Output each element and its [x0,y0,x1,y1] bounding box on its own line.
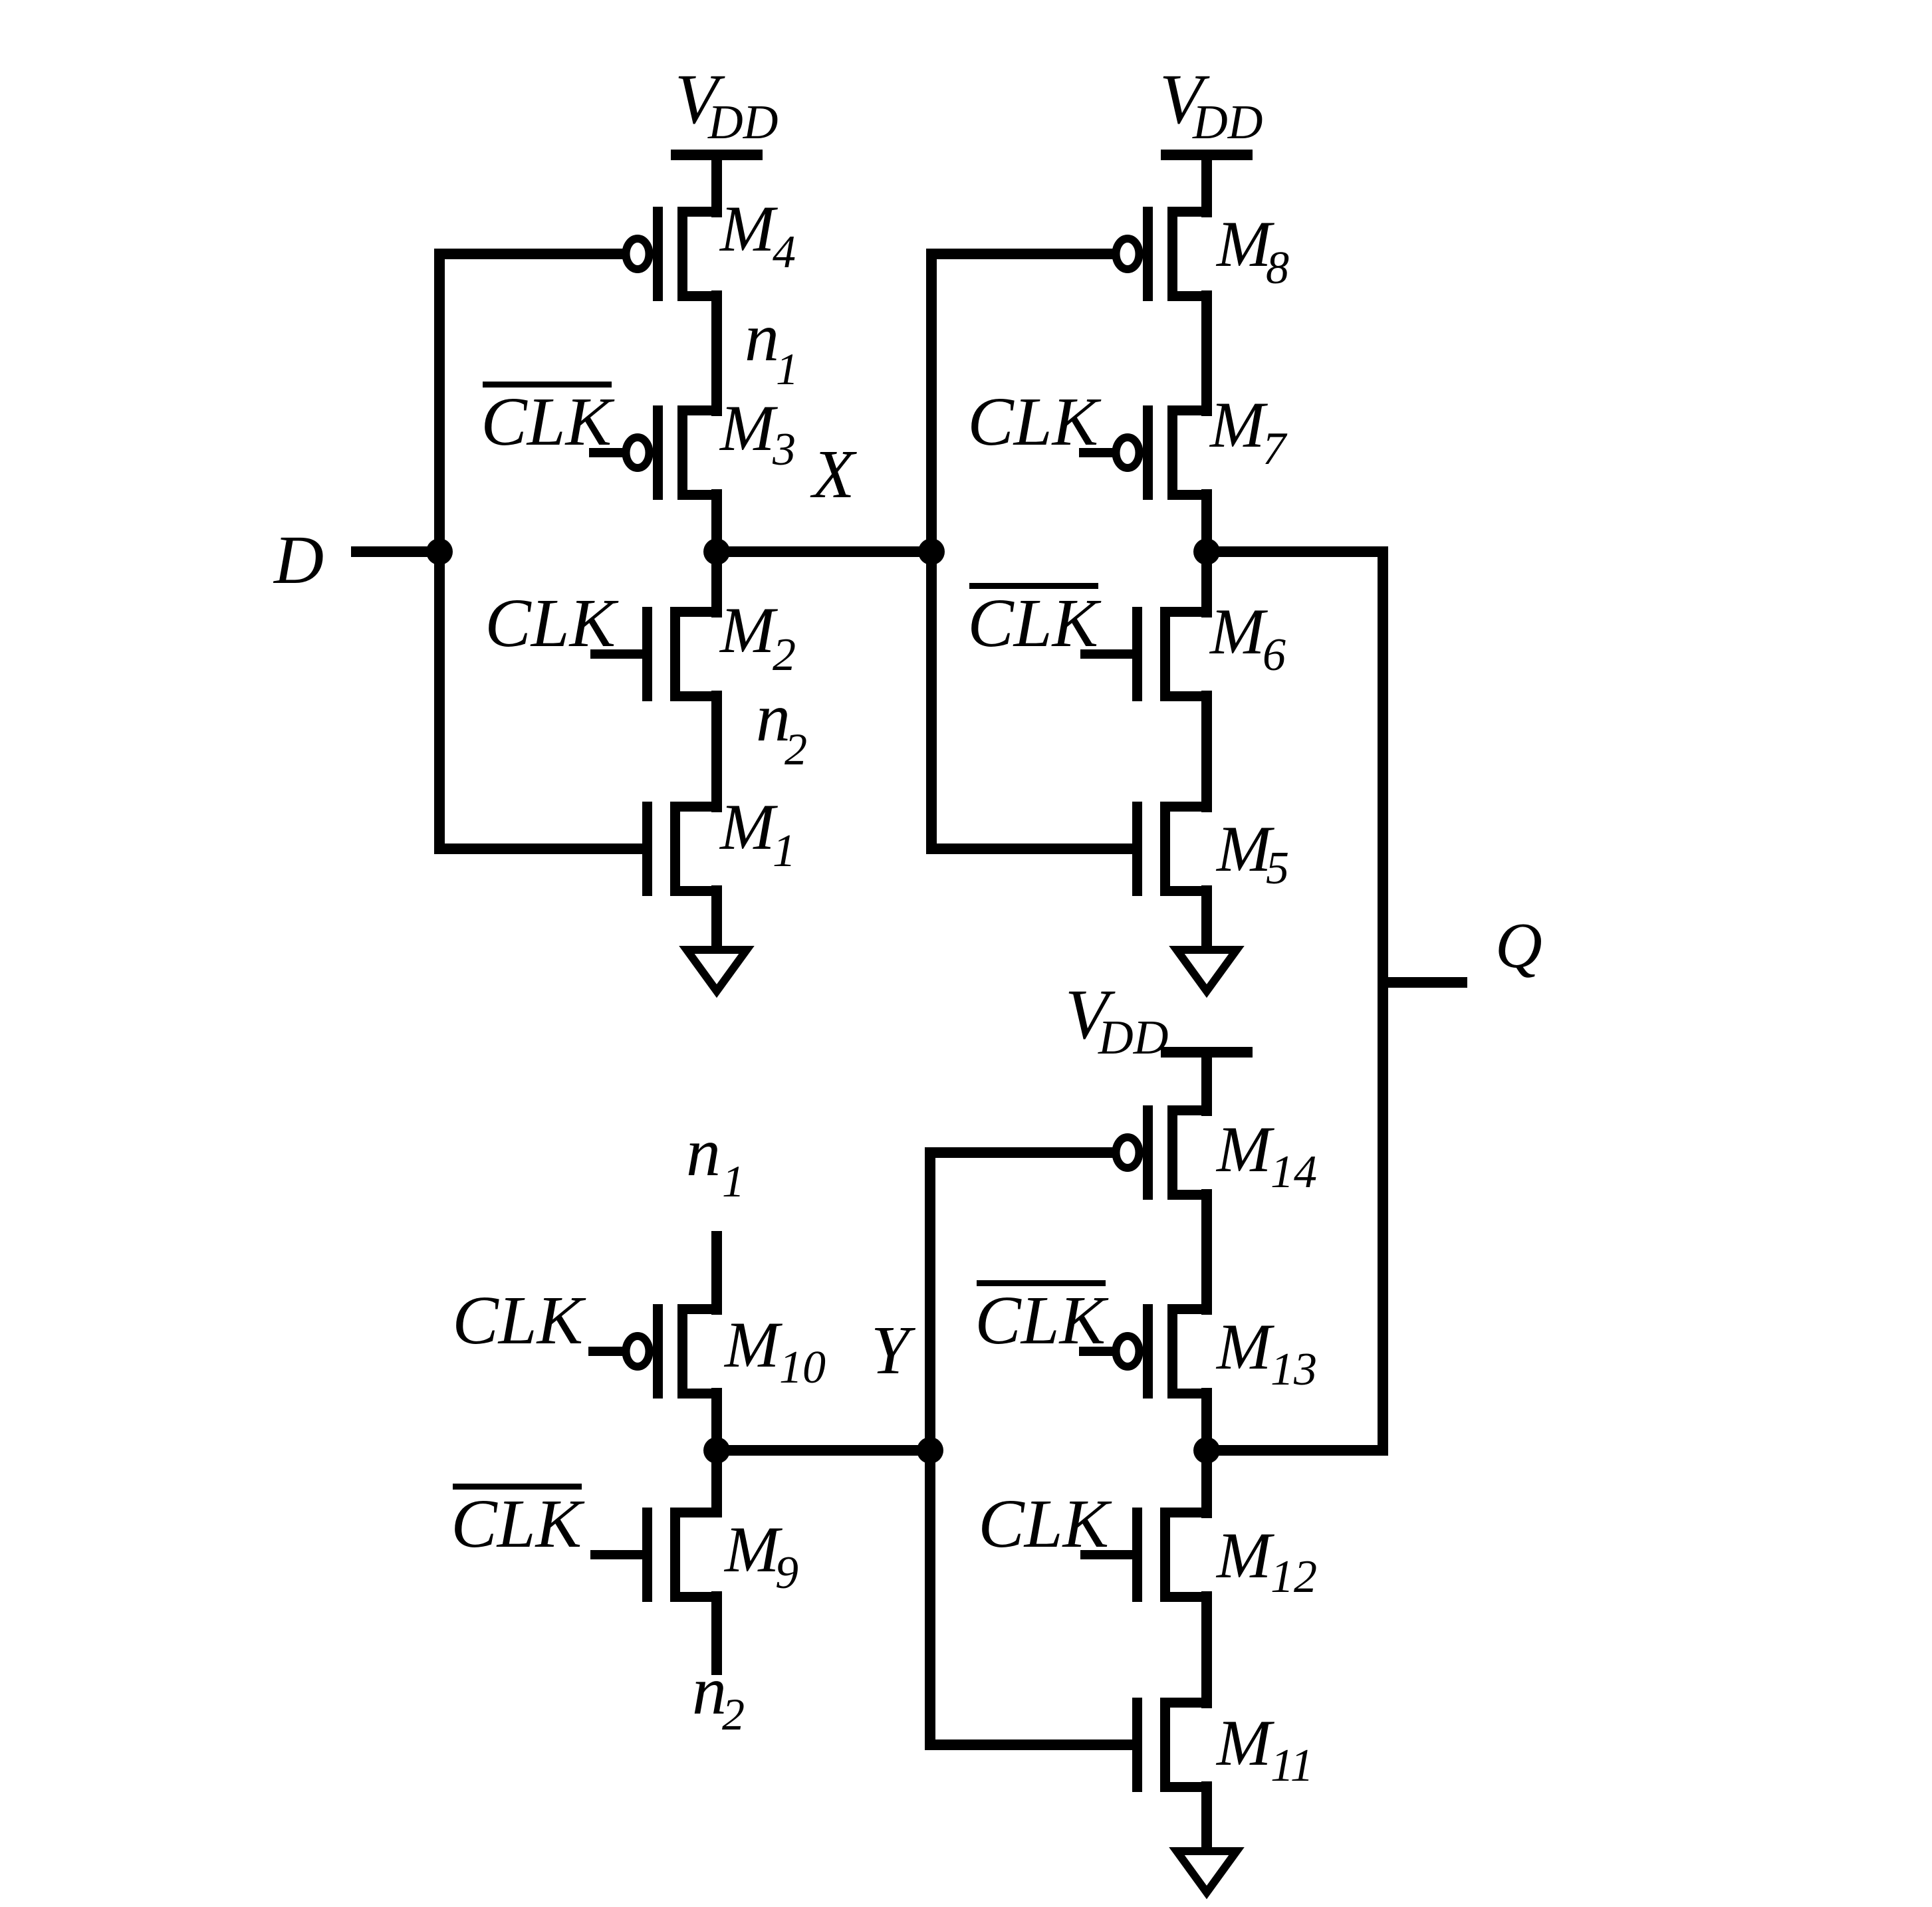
svg-text:D: D [273,522,324,598]
svg-text:9: 9 [775,1547,798,1599]
svg-text:M: M [719,392,779,465]
svg-text:M: M [1215,1311,1275,1383]
svg-text:Y: Y [871,1312,916,1389]
svg-text:CLK: CLK [481,384,614,460]
svg-text:CLK: CLK [485,585,618,661]
svg-text:2: 2 [722,1689,745,1739]
svg-text:2: 2 [785,724,807,774]
svg-text:M: M [719,594,779,667]
svg-text:M: M [1215,1707,1275,1779]
svg-text:3: 3 [772,424,796,475]
svg-text:7: 7 [1263,423,1288,475]
svg-text:CLK: CLK [451,1486,584,1562]
svg-text:10: 10 [779,1342,826,1393]
svg-text:DD: DD [1098,1010,1168,1064]
svg-text:CLK: CLK [967,585,1101,661]
svg-text:M: M [719,791,779,863]
svg-text:CLK: CLK [978,1486,1112,1562]
svg-text:13: 13 [1270,1344,1317,1395]
svg-text:5: 5 [1266,843,1289,894]
svg-text:6: 6 [1263,629,1286,681]
svg-text:M: M [723,1309,783,1381]
svg-text:1: 1 [722,1156,745,1206]
svg-text:n: n [745,299,779,376]
svg-text:DD: DD [1192,95,1263,149]
svg-text:2: 2 [773,629,796,681]
svg-text:X: X [810,436,857,512]
svg-text:14: 14 [1270,1147,1317,1198]
svg-text:12: 12 [1270,1551,1317,1603]
svg-text:8: 8 [1266,243,1289,294]
svg-text:M: M [1209,596,1268,668]
svg-text:M: M [723,1514,783,1586]
svg-text:n: n [686,1114,721,1190]
svg-text:M: M [1215,1113,1275,1186]
svg-text:M: M [1209,389,1268,461]
svg-text:Q: Q [1495,910,1542,982]
svg-text:1: 1 [776,344,798,394]
svg-text:CLK: CLK [967,384,1101,460]
svg-text:M: M [1215,1519,1275,1592]
svg-text:DD: DD [707,95,778,149]
svg-text:M: M [719,193,779,265]
svg-text:1: 1 [773,826,796,877]
svg-text:11: 11 [1270,1740,1314,1791]
svg-text:CLK: CLK [452,1282,586,1359]
svg-text:CLK: CLK [975,1282,1108,1359]
svg-text:4: 4 [773,227,796,278]
